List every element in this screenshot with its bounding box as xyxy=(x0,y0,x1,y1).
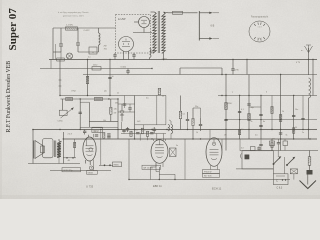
tube V3 electrodes xyxy=(210,138,219,160)
capacitor C1 xyxy=(59,28,63,52)
wire x273.4 v xyxy=(272,169,274,174)
label 5k0 xyxy=(144,130,146,132)
label C63 xyxy=(277,187,283,190)
wire x156.8 xyxy=(156,96,158,125)
wire x134.6 xyxy=(134,96,136,140)
capacitor C25 xyxy=(122,130,125,134)
tube V3 anode circle xyxy=(212,142,215,145)
svg-text:947 X05: 947 X05 xyxy=(204,176,212,178)
junction dots right extra xyxy=(225,95,310,140)
wire x148 pin xyxy=(147,136,149,140)
label 2 200 xyxy=(162,58,168,60)
tube V1 envelope xyxy=(83,137,96,161)
junction dots V1 xyxy=(104,164,111,166)
wire y168.9 xyxy=(236,168,273,170)
label 1k xyxy=(251,121,253,123)
label (4) xyxy=(104,91,107,93)
svg-text:0,5: 0,5 xyxy=(146,98,149,100)
resistor R8 xyxy=(110,107,117,114)
wire x308.5 lower xyxy=(308,130,310,140)
wire y157.8 xyxy=(63,157,76,159)
svg-text:C-022: C-022 xyxy=(84,30,91,32)
wire AVC bus y129.5 xyxy=(33,129,317,131)
svg-text:2k: 2k xyxy=(162,96,164,98)
svg-text:gemessen mit U = 220 V: gemessen mit U = 220 V xyxy=(63,15,84,18)
svg-text:Z 4.8: Z 4.8 xyxy=(68,134,72,136)
svg-text:U 733: U 733 xyxy=(86,185,94,189)
box GW12 xyxy=(92,127,103,132)
label Z48 xyxy=(68,134,72,136)
resistor R17 xyxy=(248,114,250,121)
wire bus y95.5 c xyxy=(218,95,317,97)
socket caption xyxy=(251,16,269,19)
svg-text:1k: 1k xyxy=(251,121,253,123)
wire heater bus y150.5 xyxy=(240,150,318,152)
capacitor C6 xyxy=(83,130,86,135)
wire x156.8 pin2 xyxy=(156,134,158,141)
label V1 type xyxy=(86,185,94,189)
svg-text:1W: 1W xyxy=(114,113,117,115)
switch S1 bar xyxy=(198,11,200,41)
wire bus y68.5 left xyxy=(40,68,152,70)
svg-text:14k: 14k xyxy=(114,109,117,111)
resistor R2k xyxy=(158,88,164,97)
wire y108 stub xyxy=(193,108,201,118)
wire winding leads xyxy=(58,139,60,164)
capacitor C8 xyxy=(186,112,189,130)
svg-text:Ch•(t): Ch•(t) xyxy=(58,120,63,123)
svg-text:25μ: 25μ xyxy=(195,106,198,108)
svg-text:10k: 10k xyxy=(103,120,106,122)
label 11 ZW xyxy=(118,17,126,21)
wire y133.5 row xyxy=(121,133,166,135)
wire x163.3 pin xyxy=(162,134,164,141)
component box Ra xyxy=(66,97,73,100)
filled component box xyxy=(245,155,250,160)
svg-text:C 6,3: C 6,3 xyxy=(277,187,283,190)
svg-text:0,1: 0,1 xyxy=(241,109,244,111)
wire jog y107 xyxy=(249,106,261,108)
title small R.F.T Funkwerk Dresden VEB xyxy=(6,61,12,133)
wire bus y68 right xyxy=(180,68,222,75)
diamond box xyxy=(170,148,177,157)
wire bus y74.5 xyxy=(83,74,317,76)
label 5 000 xyxy=(121,66,127,68)
extra junction dots xyxy=(87,59,314,180)
wire bus y139 xyxy=(63,138,317,140)
annotation line2 xyxy=(63,15,84,18)
svg-text:b. mit Spg. angegeben geg. Cha: b. mit Spg. angegeben geg. Chassis xyxy=(58,11,89,14)
wire x118 tall xyxy=(117,99,119,139)
wire x60 ticks xyxy=(59,80,62,86)
wire x60 vertical xyxy=(59,60,61,96)
resistor R23 xyxy=(293,128,295,134)
svg-text:0,5: 0,5 xyxy=(241,129,244,131)
resistor R24 xyxy=(271,139,273,151)
earth symbol xyxy=(300,175,317,189)
svg-text:5k/2: 5k/2 xyxy=(137,121,140,123)
wire T1 top leads xyxy=(151,11,169,14)
label Ch+ xyxy=(58,120,63,123)
label sqrt7N2 xyxy=(71,90,77,93)
wire x240 drop xyxy=(239,139,241,151)
label 10T xyxy=(154,130,158,132)
wire y52 segs xyxy=(53,52,99,60)
boxed label 5W12X35 xyxy=(142,165,161,169)
wire x226 xyxy=(225,75,227,151)
svg-text:(4): (4) xyxy=(104,91,107,93)
label n r xyxy=(301,50,304,52)
output transformer core xyxy=(54,141,56,158)
small box X xyxy=(290,169,297,174)
transformer T1 core xyxy=(158,11,159,53)
wire x278.2 v xyxy=(277,151,279,157)
svg-text:6,3: 6,3 xyxy=(241,148,244,150)
svg-text:50μ: 50μ xyxy=(251,107,254,109)
extra micro labels xyxy=(88,57,304,150)
dashed chassis box xyxy=(116,15,151,54)
capacitor C21 xyxy=(292,115,295,116)
resistor R9 xyxy=(141,128,143,134)
transformer T1 primary xyxy=(153,12,156,53)
coil L5 xyxy=(171,121,173,139)
wire bus y163.5 left xyxy=(28,163,80,165)
tube socket circle A xyxy=(119,37,134,52)
capacitor C24 xyxy=(128,104,131,112)
wire bus y95.5 b xyxy=(118,95,166,97)
wire x165.9 xyxy=(165,96,167,125)
svg-text:1735: 1735 xyxy=(235,70,239,72)
wire x62.7 xyxy=(62,99,64,110)
label V3 type xyxy=(212,187,222,191)
label 0,5u xyxy=(241,129,244,131)
tube socket circle B xyxy=(139,17,150,28)
wire x129 drop xyxy=(128,139,130,180)
wire ground bus y179.5 xyxy=(129,179,290,181)
wire x180 stub xyxy=(179,68,181,75)
resistor R1 xyxy=(66,25,78,31)
wire x280.6 xyxy=(280,75,282,151)
trimmer pot box xyxy=(59,108,73,118)
tube socket bottom view xyxy=(249,21,270,42)
svg-text:5 000: 5 000 xyxy=(121,66,127,68)
mains box outline xyxy=(242,151,273,169)
label 2W700 xyxy=(104,46,108,51)
wire y104 row xyxy=(118,103,135,105)
svg-text:2 200: 2 200 xyxy=(162,58,168,60)
resistor R12 box xyxy=(92,65,101,70)
svg-text:GW05: GW05 xyxy=(113,165,118,167)
svg-text:5N7: 5N7 xyxy=(115,103,118,105)
tube V3 pins xyxy=(210,130,218,170)
resistor R19 xyxy=(279,115,281,122)
box with plus xyxy=(89,47,97,54)
svg-text:5k: 5k xyxy=(144,130,146,132)
svg-text:4700: 4700 xyxy=(228,103,232,105)
speaker cone xyxy=(34,141,44,159)
capacitor C16 xyxy=(94,132,99,137)
component cluster a xyxy=(251,146,261,151)
svg-text:0,1: 0,1 xyxy=(88,57,91,59)
wire x140.2 pin xyxy=(139,134,141,141)
resistor R15 xyxy=(74,142,76,148)
svg-text:R.F.T Funkwerk Dresden VEB: R.F.T Funkwerk Dresden VEB xyxy=(6,61,12,133)
boxed label 5W32 xyxy=(87,171,98,175)
tube V3 envelope xyxy=(206,138,222,167)
hatch resistor R1 fill xyxy=(66,27,77,29)
capacitor C23 xyxy=(123,104,126,105)
wire HT bus y59.5 xyxy=(49,59,317,61)
wire y12.8 feed xyxy=(168,12,198,14)
label 10n xyxy=(295,109,298,111)
capacitor C22 xyxy=(301,118,304,119)
svg-text:n r: n r xyxy=(301,50,304,52)
label 5N7 xyxy=(115,103,118,105)
bracket mark xyxy=(240,154,241,159)
wire y121.4 row xyxy=(89,120,118,122)
wire x89.3 xyxy=(88,102,90,127)
svg-text:30: 30 xyxy=(295,127,297,129)
wire x293.7 xyxy=(293,96,295,140)
capacitor C15 xyxy=(126,127,129,132)
boxed label W32X5p xyxy=(62,168,81,172)
capacitor C30 xyxy=(279,133,282,134)
wire x87.5 drop xyxy=(87,60,89,96)
boxed label 947X05 xyxy=(203,174,220,178)
capacitor C19 xyxy=(259,114,262,115)
wire x53 vertical xyxy=(52,28,54,60)
fuse box xyxy=(273,174,288,185)
svg-text:0,1: 0,1 xyxy=(183,114,186,116)
capacitor C27 xyxy=(150,133,153,134)
capacitor C13 xyxy=(126,69,129,75)
wire x110 drop xyxy=(109,60,111,96)
coil L1 xyxy=(99,28,101,52)
antenna symbol xyxy=(305,45,313,75)
resistor on HT bus xyxy=(57,58,65,61)
svg-text:Super 07: Super 07 xyxy=(7,8,19,51)
speaker magnet frame xyxy=(43,139,54,158)
wire x110.8 links xyxy=(110,99,112,121)
wire x80.2 xyxy=(79,99,81,130)
resistor R16 xyxy=(225,103,227,110)
tube V1 electrodes xyxy=(86,139,94,156)
resistor R2 xyxy=(173,11,183,14)
antenna coil L2 xyxy=(309,78,311,130)
switch S1 contact a xyxy=(199,12,219,14)
label 25u xyxy=(195,106,198,108)
svg-text:1k: 1k xyxy=(196,132,198,134)
coil L4 xyxy=(168,125,170,131)
wire y165.3 seg xyxy=(99,164,113,166)
double vertical x55.5 xyxy=(55,44,57,60)
capacitor C18 xyxy=(238,111,241,112)
wire x239.6 xyxy=(239,96,241,140)
tube V2 pins xyxy=(154,139,166,167)
wire tube B leads xyxy=(133,22,152,33)
tube V1 pins top xyxy=(88,134,93,138)
wire x100.8 xyxy=(100,130,102,166)
svg-text:5W32: 5W32 xyxy=(88,173,94,175)
resistor R5 xyxy=(86,76,88,84)
resistor R18 xyxy=(271,107,273,114)
pilot lamp xyxy=(89,166,93,170)
svg-text:ECH 11: ECH 11 xyxy=(212,187,222,191)
junction dot speaker bus xyxy=(32,129,64,140)
wire x63.3 xyxy=(62,132,64,164)
svg-text:2W: 2W xyxy=(104,46,107,48)
wire tube A leads xyxy=(124,51,129,60)
wire x134 drop xyxy=(134,139,136,145)
svg-text:11 ZW: 11 ZW xyxy=(118,17,126,21)
svg-text:6 5 4: 6 5 4 xyxy=(258,38,262,40)
svg-text:4W 2: 4W 2 xyxy=(94,132,98,134)
capacitor C28 xyxy=(277,139,280,151)
capacitor C9 xyxy=(199,118,202,131)
label 2k xyxy=(282,111,284,113)
junction y99 dots xyxy=(80,98,110,99)
capacitor C12 xyxy=(132,53,135,60)
svg-text:W 32 X5p: W 32 X5p xyxy=(64,170,74,172)
wire x270 stub xyxy=(272,139,285,151)
svg-text:b: b xyxy=(266,92,267,94)
switch S2 lever2 xyxy=(286,157,295,166)
wire x272 xyxy=(271,96,273,130)
wire x121.5 xyxy=(121,122,123,130)
transformer T1 secondary xyxy=(162,12,165,53)
svg-text:0,1: 0,1 xyxy=(136,130,139,132)
wire x222 lower xyxy=(221,139,223,151)
label 0,1a xyxy=(241,109,244,111)
capacitor C17 xyxy=(224,119,227,120)
capacitor C11 xyxy=(113,53,116,60)
svg-text:2n: 2n xyxy=(117,93,119,95)
junction dots mid xyxy=(80,98,153,139)
component box Rb xyxy=(95,97,103,100)
svg-text:1 2 3: 1 2 3 xyxy=(258,27,262,29)
label 6 B xyxy=(211,25,215,28)
wire x33 drop xyxy=(32,130,34,164)
resistor R20 xyxy=(130,131,132,136)
wire y99 row xyxy=(61,98,119,100)
svg-text:2k: 2k xyxy=(282,111,284,113)
wire y124.8 row xyxy=(135,124,166,126)
capacitor C4 xyxy=(79,112,82,113)
wire y112 row xyxy=(118,111,135,113)
wire x303 xyxy=(302,96,304,130)
svg-text:50: 50 xyxy=(112,76,114,78)
tube V1 pins bottom xyxy=(86,160,94,171)
annotation line1 xyxy=(58,11,89,14)
svg-text:4μ: 4μ xyxy=(169,120,171,122)
capacitor block xyxy=(307,170,313,175)
capacitor C26 xyxy=(136,133,139,134)
junction dots right band xyxy=(225,95,309,140)
wire x247 drop xyxy=(246,60,248,75)
svg-text:C: C xyxy=(276,179,278,183)
box GW05 xyxy=(113,162,122,167)
svg-text:2n: 2n xyxy=(302,132,304,134)
wire x185 drop xyxy=(184,139,186,180)
svg-text:0,5: 0,5 xyxy=(255,135,258,137)
capacitor C7 xyxy=(153,127,156,133)
svg-text:Fassungsansicht: Fassungsansicht xyxy=(251,16,269,19)
wire row y119.6 right xyxy=(226,119,317,121)
wire bus y170.5 xyxy=(50,170,111,172)
labels right row2 xyxy=(224,135,287,137)
left edge shadow xyxy=(0,0,2,199)
capacitor C10 xyxy=(231,60,238,75)
resistor R22 xyxy=(239,129,241,135)
junction dots speaker xyxy=(66,157,74,159)
coil L3 xyxy=(150,49,152,60)
wire x261 xyxy=(260,96,262,140)
label V2 type xyxy=(153,184,162,188)
speaker coil box xyxy=(41,146,45,153)
resistor R11 xyxy=(192,108,194,139)
resistor R13 xyxy=(308,151,311,171)
svg-text:6 B: 6 B xyxy=(211,25,215,28)
resistor R10 xyxy=(179,96,185,130)
wire y102.2 stub xyxy=(80,101,89,103)
wire x150.5 drop xyxy=(151,167,157,180)
label 250 xyxy=(271,138,276,141)
label 4TV xyxy=(296,62,301,64)
tube V2 electrodes xyxy=(155,140,164,158)
svg-text:1,1 kHz: 1,1 kHz xyxy=(66,25,73,27)
wire y28 top-left xyxy=(53,27,116,29)
wire x51 stub xyxy=(50,60,52,69)
resistor R21 xyxy=(146,131,148,136)
switch S1 contact b xyxy=(199,37,219,39)
diode D1 xyxy=(120,104,124,121)
wire x313 right edge xyxy=(312,60,314,96)
label 4ohm xyxy=(68,160,71,162)
wire y127.7 row xyxy=(80,127,118,129)
capacitor C31 xyxy=(259,139,262,151)
component box top1 xyxy=(270,141,275,146)
capacitor C2 xyxy=(76,28,80,52)
label 4700 xyxy=(228,103,232,105)
svg-text:⊥250: ⊥250 xyxy=(271,138,276,141)
label C-022 xyxy=(84,30,91,32)
capacitor C3 xyxy=(108,76,113,79)
label 30 xyxy=(295,127,297,129)
wire x284.3 v xyxy=(283,157,285,174)
svg-text:a: a xyxy=(232,92,233,94)
component box top2 xyxy=(283,141,288,146)
junction dots buses xyxy=(59,59,294,180)
tube V2 envelope xyxy=(151,140,168,164)
boxed label PV03W xyxy=(203,170,220,174)
svg-text:8n: 8n xyxy=(263,121,265,123)
svg-text:3n: 3n xyxy=(176,145,178,147)
label 50u xyxy=(251,107,254,109)
wire T1 bottom leads xyxy=(151,52,164,60)
svg-text:5W 12 X35: 5W 12 X35 xyxy=(143,168,154,170)
wire x124.5 drop xyxy=(124,96,126,109)
title large Super 07 xyxy=(7,8,19,51)
svg-text:10n: 10n xyxy=(295,109,298,111)
label 0,1b xyxy=(136,130,139,132)
switch S2 lever1 xyxy=(273,156,282,165)
wire x249 xyxy=(248,75,250,140)
resistor R14 xyxy=(103,133,105,139)
svg-text:5k: 5k xyxy=(286,135,288,137)
lamp La1 xyxy=(67,53,73,59)
wire x291.5 v xyxy=(293,174,295,180)
socket pin numbers xyxy=(258,27,262,40)
